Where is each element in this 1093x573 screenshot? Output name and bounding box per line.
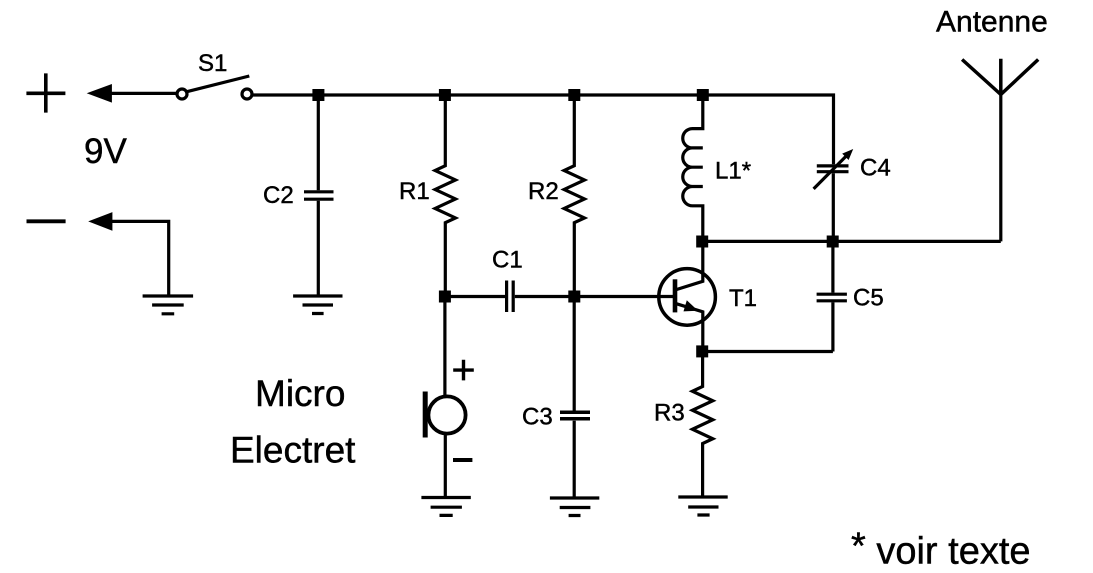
wire microphone to ground	[444, 434, 447, 497]
svg-text:C3: C3	[522, 404, 553, 431]
ground (R3)	[678, 497, 727, 515]
svg-text:Electret: Electret	[230, 430, 356, 471]
variable capacitor C4	[814, 149, 854, 241]
svg-text:C5: C5	[853, 285, 884, 312]
svg-text:C2: C2	[263, 182, 294, 209]
wire from plus terminal to S1 (with arrowhead)	[87, 84, 178, 103]
resistor R3	[692, 352, 712, 497]
wire antenna down lead	[999, 95, 1002, 242]
capacitor C1	[507, 281, 514, 313]
capacitor C2	[304, 95, 334, 295]
node top rail / C2	[312, 89, 324, 101]
svg-text:T1: T1	[729, 285, 757, 312]
svg-text:9V: 9V	[84, 132, 127, 171]
node top rail / R2	[568, 89, 580, 101]
svg-text:C4: C4	[860, 155, 891, 182]
capacitor C5	[817, 241, 847, 351]
switch S1	[177, 76, 252, 99]
ground (microphone)	[421, 498, 470, 516]
wire node R1 to C1	[445, 295, 505, 298]
svg-text:L1*: L1*	[715, 158, 751, 185]
wire tank row to antenna	[702, 240, 1001, 243]
capacitor C3	[560, 412, 590, 419]
node emitter / C5 return	[696, 345, 708, 357]
svg-text:* voir texte: * voir texte	[851, 526, 1031, 573]
mic plus sign	[453, 360, 474, 381]
inductor L1	[683, 95, 703, 242]
svg-text:R3: R3	[654, 400, 685, 427]
svg-text:Micro: Micro	[255, 373, 345, 414]
wire emitter node to C5 branch	[702, 350, 833, 353]
node collector / L1 / tank	[696, 236, 708, 248]
wire top supply rail	[252, 95, 834, 164]
wire node to microphone	[443, 297, 446, 396]
battery minus terminal	[27, 219, 66, 223]
node C4 / C5 / antenna	[827, 236, 839, 248]
node top rail / R1	[439, 89, 451, 101]
resistor R1	[435, 95, 455, 297]
wire from minus terminal down to ground (with arrowhead)	[88, 212, 169, 295]
ground (C3)	[550, 498, 599, 516]
ground (battery minus)	[143, 296, 194, 314]
svg-text:Antenne: Antenne	[936, 6, 1048, 39]
mic minus sign	[453, 458, 472, 462]
microphone electret (symbol)	[425, 392, 465, 438]
wire C1 to transistor base	[515, 295, 674, 298]
svg-text:C1: C1	[492, 247, 523, 274]
antenna	[962, 59, 1038, 95]
resistor R2	[564, 95, 584, 297]
battery plus terminal	[26, 73, 65, 112]
svg-text:R1: R1	[399, 178, 430, 205]
wire R2 node to C3	[573, 297, 576, 411]
node R1 / C1 / mic	[439, 291, 451, 303]
node R2 / C1 / base	[568, 291, 580, 303]
transistor T1	[659, 241, 716, 351]
svg-text:R2: R2	[528, 178, 559, 205]
node top rail / L1	[697, 89, 709, 101]
svg-text:S1: S1	[198, 50, 227, 77]
ground (C2)	[293, 296, 342, 314]
wire C3 to ground	[573, 421, 576, 498]
